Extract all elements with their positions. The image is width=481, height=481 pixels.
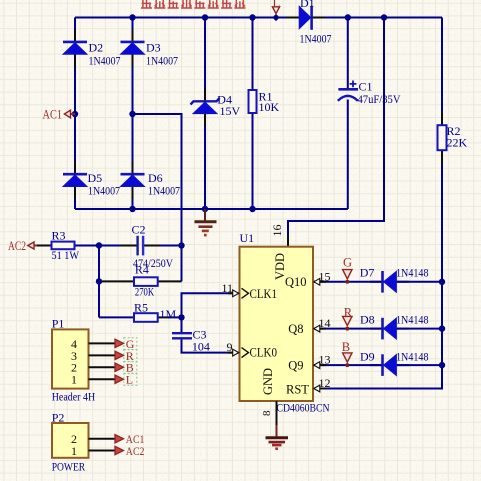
clock chevron pin 9 [242, 348, 249, 358]
net arrow AC1 [115, 435, 124, 443]
resistor R3 [52, 242, 75, 250]
svg-text:CLK0: CLK0 [250, 346, 278, 360]
wire CLK1 net from R5/C3 node to pin 11 [182, 293, 240, 332]
wire VDD to pin 16 [288, 18, 384, 247]
wire AC2 / R3 / C2 line [36, 245, 137, 247]
svg-text:1: 1 [71, 444, 77, 458]
diode D2 [63, 42, 87, 54]
pin arrow right y=365.1 [314, 362, 320, 369]
capacitor C3 [172, 333, 192, 338]
wire R1 column [252, 18, 254, 210]
svg-text:B: B [342, 340, 350, 354]
svg-text:Q10: Q10 [285, 275, 307, 289]
svg-text:22K: 22K [447, 136, 468, 150]
svg-text:CLK1: CLK1 [250, 287, 278, 301]
svg-text:U1: U1 [240, 231, 255, 245]
svg-text:D1: D1 [300, 0, 315, 10]
diode pin stubs (black) [74, 29, 76, 199]
P1 pin 2 wire [89, 366, 116, 368]
wire bridge right column (D3/D6) [132, 18, 134, 210]
port AC2 [34, 245, 38, 247]
svg-text:16: 16 [270, 225, 284, 237]
svg-text:474/250V: 474/250V [133, 256, 173, 270]
clock chevron pin 11 [242, 288, 249, 298]
svg-text:P1: P1 [52, 316, 65, 330]
wire pin 13 to right bus (D9 line) [313, 364, 442, 366]
P1 pin 4 wire [89, 342, 116, 344]
zener diode D4 [191, 98, 220, 114]
pin 16 stub black [287, 237, 289, 247]
svg-text:C2: C2 [132, 223, 146, 237]
svg-text:10K: 10K [259, 100, 280, 114]
P1 pin 3 wire [89, 354, 116, 356]
svg-text:15V: 15V [220, 104, 241, 118]
svg-text:1N4007: 1N4007 [88, 184, 120, 198]
P2 pin 1 wire [89, 450, 116, 452]
wire top bus [75, 17, 442, 19]
diode D6 [121, 174, 145, 186]
pin arrow right y=388.5 [314, 385, 320, 392]
wire bridge left column (D2/D5) [74, 18, 76, 210]
net arrow G [115, 339, 124, 347]
ground (bridge, below D4) [195, 209, 217, 236]
svg-text:G: G [343, 256, 352, 270]
svg-text:Q8: Q8 [288, 322, 303, 336]
svg-text:Q9: Q9 [288, 358, 303, 372]
svg-text:51 1W: 51 1W [52, 248, 80, 262]
resistor R1 [249, 90, 257, 113]
P2 pin 2 wire [89, 438, 116, 440]
wire C1 column [347, 18, 349, 210]
wire bottom bus [75, 208, 348, 210]
diode D5 [63, 174, 87, 186]
net arrow AC2 [115, 446, 124, 454]
net arrow B [115, 363, 124, 371]
pin stubs black (IC left side) [228, 293, 240, 352]
wire C3 bottom to CLK0 pin 9 [182, 339, 240, 353]
svg-text:11: 11 [222, 281, 234, 295]
svg-text:R5: R5 [134, 300, 148, 314]
node L attach diamond [272, 14, 279, 21]
wire D4 column [204, 18, 206, 210]
wire bridge mid tap to C2 node [133, 114, 182, 281]
svg-text:1N4007: 1N4007 [148, 184, 180, 198]
svg-text:POWER: POWER [52, 459, 85, 473]
svg-text:14: 14 [319, 316, 331, 330]
resistor R4 [134, 277, 158, 286]
junction dots [129, 14, 135, 20]
svg-text:1: 1 [71, 373, 77, 387]
svg-text:D8: D8 [360, 313, 375, 327]
P1 pin 1 wire [89, 378, 116, 380]
svg-text:47uF/35V: 47uF/35V [358, 92, 401, 106]
title text (cut off at top) [141, 0, 246, 8]
wire R4 left lead [99, 280, 134, 282]
svg-text:P2: P2 [52, 410, 65, 424]
pin arrow left y=293.3 [233, 290, 239, 297]
wire left node column [98, 246, 100, 318]
wire R5 left lead [99, 316, 134, 318]
svg-text:1N4148: 1N4148 [396, 349, 429, 363]
svg-text:RST: RST [286, 382, 309, 396]
svg-text:D3: D3 [146, 41, 161, 55]
wire right bus down to RST pin 12 [313, 18, 442, 389]
capacitor C2 [138, 236, 144, 256]
svg-text:AC2: AC2 [8, 239, 26, 253]
wire R5 right lead [158, 316, 170, 318]
port R [343, 316, 352, 325]
svg-text:L: L [273, 0, 281, 10]
svg-text:8: 8 [261, 410, 273, 416]
resistor R5 [134, 313, 158, 322]
wire pin 15 to right bus (D7 line) [313, 281, 442, 283]
svg-text:1N4007: 1N4007 [89, 54, 121, 68]
svg-text:CD4060BCN: CD4060BCN [277, 400, 330, 414]
pin arrow right y=328.6 [314, 325, 320, 332]
net arrow L [115, 375, 124, 383]
port L (top) [272, 7, 279, 14]
diode D3 [121, 42, 145, 54]
connector P2 POWER [52, 423, 89, 458]
net arrow R [115, 351, 124, 359]
port B [343, 353, 352, 362]
svg-text:L: L [126, 373, 133, 387]
diode D9 [383, 354, 397, 376]
svg-text:1N4148: 1N4148 [396, 265, 429, 279]
wire pin 14 to right bus (D8 line) [313, 328, 442, 330]
svg-text:R: R [344, 305, 353, 319]
wire R4 right lead [158, 280, 182, 282]
diode D7 [383, 271, 397, 293]
op IC U1 CD4060BCN body [240, 247, 314, 401]
svg-text:D7: D7 [360, 265, 375, 279]
svg-text:1N4007: 1N4007 [300, 32, 332, 46]
svg-text:D9: D9 [360, 349, 375, 363]
ground (IC GND pin 8) [266, 401, 289, 450]
port AC1 [70, 113, 75, 115]
svg-text:104: 104 [192, 339, 210, 353]
svg-text:AC2: AC2 [126, 444, 145, 458]
svg-text:1N4007: 1N4007 [146, 54, 178, 68]
resistor R2 [438, 125, 447, 150]
svg-text:R3: R3 [52, 229, 66, 243]
svg-text:GND: GND [261, 368, 275, 395]
diode D8 [383, 318, 397, 340]
svg-text:1M: 1M [160, 307, 177, 321]
svg-text:13: 13 [319, 353, 331, 367]
capacitor C1 (polarized) [338, 81, 358, 101]
port G [343, 270, 352, 279]
svg-text:1N4148: 1N4148 [396, 313, 429, 327]
svg-text:270K: 270K [135, 285, 154, 299]
svg-text:15: 15 [319, 270, 331, 284]
svg-text:D2: D2 [89, 41, 104, 55]
svg-text:Header 4H: Header 4H [52, 390, 96, 404]
pin stubs black (IC right side) [313, 282, 326, 389]
svg-text:AC1: AC1 [43, 108, 63, 122]
svg-text:12: 12 [319, 376, 331, 390]
pin arrow left y=352.6 [233, 349, 239, 356]
connector P1 Header 4H [52, 329, 89, 388]
diode D1 [299, 6, 311, 30]
svg-text:9: 9 [227, 340, 233, 354]
pin arrow right y=281.8 [314, 278, 320, 285]
